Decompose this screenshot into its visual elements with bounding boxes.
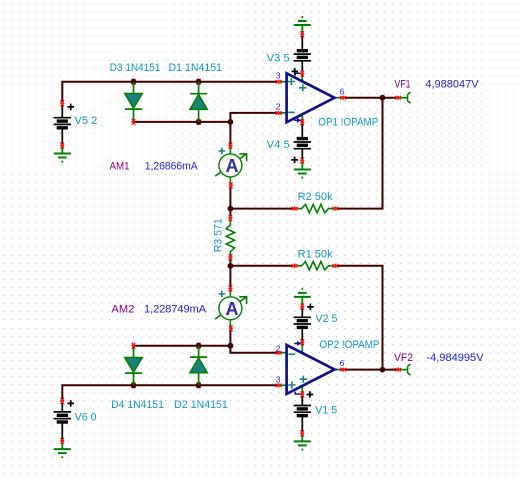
- svg-text:R1 50k: R1 50k: [298, 248, 333, 260]
- wire node E to OP2 pin2: [230, 346, 277, 353]
- resistor R3 571: [213, 215, 235, 260]
- ground below V6: [54, 443, 71, 458]
- node C junction: [228, 206, 234, 212]
- diode D3 1N4151: [110, 62, 161, 125]
- svg-text:-4,984995V: -4,984995V: [426, 352, 484, 364]
- ground below V4: [294, 163, 311, 179]
- wire R3 to node D: [229, 259, 231, 266]
- svg-text:V2 5: V2 5: [316, 313, 338, 325]
- wire R2 to output node: [338, 98, 383, 209]
- svg-text:AM2: AM2: [111, 304, 134, 316]
- diode D2 1N4151: [174, 346, 228, 411]
- svg-text:4,988047V: 4,988047V: [425, 78, 479, 90]
- battery V2 5: [294, 304, 338, 341]
- svg-text:D3 1N4151: D3 1N4151: [110, 62, 161, 74]
- node D2 bottom: [197, 382, 201, 386]
- svg-text:VF2: VF2: [394, 352, 413, 364]
- node D junction: [228, 263, 234, 269]
- svg-text:6: 6: [340, 86, 345, 96]
- battery V6 0: [54, 398, 97, 444]
- wire node D to R1: [230, 265, 292, 267]
- svg-text:3: 3: [276, 71, 281, 81]
- node D3 top: [132, 79, 136, 83]
- wire node D down to AM2: [229, 266, 231, 286]
- wire V5 to top node: [62, 82, 277, 102]
- wire diode bottoms D3-D1 to junction: [134, 121, 231, 123]
- voltage pin VF2: [394, 352, 484, 375]
- svg-text:D4 1N4151: D4 1N4151: [111, 399, 164, 411]
- battery V4 5: [267, 124, 311, 163]
- wire OP2 output: [345, 369, 396, 371]
- svg-text:6: 6: [340, 358, 345, 368]
- op-amp OP1 !OPAMP: [276, 71, 379, 129]
- svg-text:D2 1N4151: D2 1N4151: [174, 399, 228, 411]
- wire R1 to OP2 output node: [338, 266, 383, 370]
- diode D1 1N4151: [169, 62, 223, 122]
- ground below V1: [294, 436, 311, 451]
- wire OP1 output: [345, 97, 396, 99]
- wire node C to R2: [230, 208, 292, 210]
- battery V3 5: [267, 31, 311, 74]
- node D4 bottom: [132, 382, 136, 386]
- wire AM2 to node E: [229, 330, 231, 346]
- wire node C to R3: [229, 209, 231, 216]
- node D1 bottom: [197, 119, 201, 123]
- svg-text:V1 5: V1 5: [315, 405, 337, 417]
- svg-text:V4 5: V4 5: [267, 139, 290, 151]
- battery V1 5: [294, 391, 337, 436]
- svg-text:OP2 !OPAMP: OP2 !OPAMP: [320, 339, 380, 351]
- svg-text:1,26866mA: 1,26866mA: [145, 161, 199, 173]
- wire node E to D4 top: [134, 345, 231, 347]
- svg-text:V6 0: V6 0: [75, 411, 97, 423]
- ground above V3: [294, 16, 311, 32]
- voltage pin VF1: [395, 78, 480, 103]
- svg-text:3: 3: [276, 375, 281, 385]
- node D2 top: [197, 343, 201, 347]
- op-amp OP2 !OPAMP: [276, 339, 380, 397]
- svg-text:OP1 !OPAMP: OP1 !OPAMP: [318, 116, 378, 128]
- svg-text:AM1: AM1: [110, 161, 130, 173]
- wire V6 to bottom node: [62, 385, 277, 399]
- wire junction down to AM1: [229, 122, 231, 144]
- ammeter AM1: [110, 143, 247, 189]
- svg-text:A: A: [226, 299, 239, 319]
- ground above V2: [294, 288, 311, 305]
- resistor R1 50k: [292, 248, 339, 270]
- svg-text:1,228749mA: 1,228749mA: [144, 304, 207, 316]
- svg-text:2: 2: [276, 343, 281, 353]
- node D1 top: [197, 79, 201, 83]
- svg-text:V5 2: V5 2: [74, 115, 97, 127]
- svg-text:VF1: VF1: [395, 78, 411, 90]
- node OP1 output junction: [380, 95, 386, 101]
- wire AM1 to node C: [229, 187, 231, 208]
- diode D4 1N4151: [111, 343, 164, 411]
- ground below V5: [54, 148, 71, 163]
- svg-text:A: A: [226, 156, 239, 176]
- node E junction: [228, 343, 234, 349]
- node OP2 output junction: [380, 367, 386, 373]
- resistor R2 50k: [292, 191, 339, 213]
- ammeter AM2: [111, 286, 246, 332]
- svg-text:D1 1N4151: D1 1N4151: [169, 62, 223, 74]
- svg-text:2: 2: [276, 102, 281, 112]
- wire junction to OP1 pin2: [230, 113, 277, 122]
- svg-text:R2 50k: R2 50k: [298, 191, 333, 203]
- battery V5 2: [54, 100, 98, 148]
- node B junction: [228, 119, 234, 125]
- svg-text:V3 5: V3 5: [267, 52, 290, 64]
- svg-text:R3 571: R3 571: [213, 218, 225, 252]
